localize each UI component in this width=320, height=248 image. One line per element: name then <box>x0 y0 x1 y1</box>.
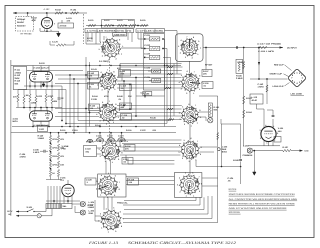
resistor on row y74 <box>167 73 173 75</box>
svg-text:R-144: R-144 <box>92 95 98 98</box>
svg-text:9: 9 <box>119 38 120 41</box>
node pins V-103 top <box>29 107 31 109</box>
svg-text:A-102: A-102 <box>44 8 51 11</box>
svg-text:A-107 CM PROBE: A-107 CM PROBE <box>257 43 282 46</box>
svg-text:250K: 250K <box>15 77 20 80</box>
probe dashed box <box>16 17 34 32</box>
capacitor C-106 <box>43 150 45 153</box>
svg-text:SOCKET: SOCKET <box>17 24 26 27</box>
rotary switch S-7 inside osc box <box>178 35 201 59</box>
resistor R-133 vertical <box>29 94 31 102</box>
wire S-10 right outputs <box>200 146 218 148</box>
wire ladder bus <box>86 25 149 27</box>
svg-text:6: 6 <box>181 39 182 42</box>
svg-text:1 MFD: 1 MFD <box>258 85 265 88</box>
svg-text:3: 3 <box>96 180 97 183</box>
frequency legend strip right <box>136 29 165 33</box>
component box right of S-4 <box>122 158 133 165</box>
svg-text:R-145: R-145 <box>150 117 157 120</box>
svg-text:6.3 V: 6.3 V <box>89 204 94 207</box>
svg-text:6: 6 <box>101 71 102 74</box>
lamp I-101 <box>208 118 213 123</box>
svg-text:3: 3 <box>259 129 260 132</box>
gang dashed link S-3 to S-4 <box>109 122 111 141</box>
svg-text:1: 1 <box>200 47 201 50</box>
svg-text:8: 8 <box>121 225 122 228</box>
tube V-101 <box>41 17 52 28</box>
svg-text:6: 6 <box>115 175 116 178</box>
svg-text:6: 6 <box>115 139 116 142</box>
wire osc box top link <box>165 30 178 32</box>
svg-text:V-102 12AU7: V-102 12AU7 <box>33 67 49 70</box>
svg-text:C-118: C-118 <box>85 148 91 151</box>
svg-text:7: 7 <box>119 181 120 184</box>
wire S-3 right rows <box>117 105 182 107</box>
rotary switch S-8 <box>179 70 203 95</box>
svg-text:3: 3 <box>177 184 178 187</box>
svg-text:7: 7 <box>198 176 199 179</box>
svg-text:L-178: L-178 <box>252 96 258 99</box>
wire corridor risers right of tubes <box>61 86 63 121</box>
node rail dots <box>32 126 34 128</box>
wire y79 to selector <box>250 78 288 80</box>
svg-text:47K: 47K <box>67 20 71 23</box>
svg-text:9: 9 <box>200 116 201 119</box>
jack J-105 bias <box>217 148 220 151</box>
wire rail y132-7 <box>11 132 176 134</box>
node mid bus dots <box>23 107 25 109</box>
svg-text:C-134: C-134 <box>144 66 151 69</box>
svg-text:9: 9 <box>119 109 120 112</box>
wire osc box to DC input <box>203 47 283 49</box>
vertical riser rail 5 <box>176 31 178 74</box>
node corridor dots <box>69 74 71 76</box>
wire left top rail <box>12 65 181 67</box>
trimmer fan 3 <box>118 138 126 143</box>
vertical rail x240-6 <box>240 124 242 159</box>
svg-text:R-112: R-112 <box>15 74 21 77</box>
svg-text:8: 8 <box>201 183 202 186</box>
vertical rail x221-5 <box>221 124 223 167</box>
svg-text:1: 1 <box>100 193 101 196</box>
svg-text:R-168: R-168 <box>233 159 240 162</box>
wire S-4 to S-5 links <box>105 161 107 174</box>
component box left of S-5 <box>85 178 96 185</box>
svg-text:1: 1 <box>199 88 200 91</box>
svg-text:1: 1 <box>112 161 113 164</box>
svg-text:1: 1 <box>114 88 115 91</box>
svg-text:R-148: R-148 <box>117 95 123 98</box>
svg-text:NOTES:: NOTES: <box>229 188 238 191</box>
trimmer C-134 <box>152 69 161 73</box>
wire AC line 2b <box>41 215 52 217</box>
svg-text:3: 3 <box>100 119 101 122</box>
svg-text:2: 2 <box>100 155 101 158</box>
wire tube to S-3 row2 <box>58 112 99 114</box>
svg-text:RESIS RATING ALL RESISTOR VALU: RESIS RATING ALL RESISTOR VALUES IN OHMS <box>229 203 296 206</box>
component box L-178 <box>250 94 263 104</box>
node power rail dots <box>53 200 55 202</box>
resistor R-134 vertical <box>35 96 37 104</box>
attenuator label box <box>58 23 74 28</box>
tube V-103 oval <box>30 111 53 121</box>
svg-text:5: 5 <box>108 138 109 141</box>
svg-text:SHORT CLIP: SHORT CLIP <box>270 72 283 75</box>
svg-text:2: 2 <box>192 56 193 59</box>
svg-text:SHUNT: SHUNT <box>17 21 25 24</box>
svg-text:FIGURE 1-13: FIGURE 1-13 <box>88 241 119 245</box>
svg-text:R-155: R-155 <box>126 129 132 132</box>
vertical wire x259 with arrow <box>258 48 260 80</box>
wire V-102 pins down <box>29 81 31 88</box>
svg-text:2 MEG: 2 MEG <box>236 77 243 80</box>
svg-text:R-103: R-103 <box>39 62 45 65</box>
svg-text:8: 8 <box>113 35 114 38</box>
wire to V-103 pins <box>29 108 31 112</box>
node dot dc wire <box>243 47 245 49</box>
component box right of S-3 upper <box>120 103 132 110</box>
svg-text:C-112: C-112 <box>141 92 147 95</box>
svg-text:8: 8 <box>119 188 120 191</box>
vertical riser rail 1 <box>164 39 166 127</box>
ground symbol right <box>253 170 256 175</box>
rotary switch S-11 <box>177 171 202 197</box>
trimmer fan 2 <box>107 138 115 143</box>
wire left col stubs <box>17 90 19 95</box>
wire tube to S-2 row2 <box>58 78 99 80</box>
svg-text:47K: 47K <box>60 155 64 158</box>
node rail y65 dots <box>85 65 86 66</box>
jack L-105 6.3V <box>80 202 85 207</box>
svg-text:47K: 47K <box>60 138 64 141</box>
wire second rail <box>27 69 83 71</box>
wire jack leads <box>72 203 80 205</box>
svg-text:1: 1 <box>193 92 194 95</box>
wire rail y126-5 <box>12 126 176 128</box>
svg-text:3: 3 <box>185 56 186 59</box>
svg-text:5: 5 <box>182 106 183 109</box>
svg-text:R-104: R-104 <box>71 8 78 11</box>
resistor R-124 <box>129 24 137 26</box>
wire and arrow 6.3v <box>291 150 299 152</box>
trimmer C-131 <box>149 37 160 41</box>
svg-text:R-121: R-121 <box>88 19 94 22</box>
svg-text:7: 7 <box>197 140 198 143</box>
svg-text:2: 2 <box>115 57 116 60</box>
svg-text:1: 1 <box>101 227 102 230</box>
svg-text:C-122: C-122 <box>140 129 146 132</box>
svg-text:1500µµF: 1500µµF <box>17 18 26 21</box>
svg-text:6: 6 <box>187 70 188 73</box>
svg-text:C-171: C-171 <box>96 135 102 138</box>
svg-text:1 MFD: 1 MFD <box>33 151 40 154</box>
vertical rail x243-7 <box>243 48 245 146</box>
svg-text:RED CLIP: RED CLIP <box>274 63 284 66</box>
svg-text:3: 3 <box>180 118 181 121</box>
svg-text:1 CYCLES SCHEMATIC kHz: 1 CYCLES SCHEMATIC kHz <box>87 30 132 33</box>
svg-text:6: 6 <box>190 137 191 140</box>
wire common jack bus <box>253 150 283 152</box>
wire lower link <box>40 30 59 32</box>
svg-text:1: 1 <box>186 195 187 198</box>
wire fans to rail <box>99 133 101 138</box>
component box right of S-8 lower <box>202 82 213 89</box>
transformer leads <box>47 186 49 204</box>
wire riser tops <box>163 38 165 40</box>
fuse F-101 <box>37 214 41 218</box>
wire S-2 right rows <box>117 77 182 79</box>
svg-text:6: 6 <box>192 171 193 174</box>
wire probe lower drop <box>50 44 55 46</box>
svg-text:L-104: L-104 <box>243 145 249 148</box>
svg-text:5: 5 <box>97 77 98 80</box>
node junction dots on bus <box>27 12 29 14</box>
wire cap stub <box>272 110 274 115</box>
wire V-105 pins top <box>263 109 265 127</box>
rotary switch S-3 <box>96 100 120 126</box>
svg-text:27K: 27K <box>87 39 91 42</box>
wire left riser to S-6 <box>94 200 96 221</box>
svg-text:C-131: C-131 <box>144 34 151 37</box>
wire S-10 S-11 link <box>189 160 191 175</box>
svg-text:10K: 10K <box>60 164 64 167</box>
svg-text:1: 1 <box>266 142 267 145</box>
component box bottom of stack <box>143 92 152 96</box>
component box right of S-8 upper <box>202 70 212 77</box>
svg-text:2: 2 <box>179 191 180 194</box>
svg-text:8: 8 <box>115 103 116 106</box>
svg-text:9: 9 <box>199 190 200 193</box>
resistor R-122 <box>104 24 112 26</box>
tube test label box <box>113 33 127 36</box>
svg-text:3: 3 <box>100 212 101 215</box>
transformer box T-102 <box>38 125 48 131</box>
svg-text:1: 1 <box>197 53 198 56</box>
wire V-103 bottom pins <box>32 121 34 127</box>
svg-text:R-163: R-163 <box>246 97 253 100</box>
resistor R-107 heater <box>283 149 292 151</box>
svg-text:S-101: S-101 <box>27 206 33 209</box>
svg-text:ATTEN: ATTEN <box>60 25 67 28</box>
wire tube cathode down <box>46 29 48 32</box>
svg-text:8: 8 <box>201 146 202 149</box>
switch box S-11 <box>174 173 202 198</box>
wire osc box bottom drop <box>189 61 191 73</box>
resistor on row y88 <box>165 87 171 89</box>
resistor R-131 vertical <box>17 94 19 102</box>
rotary switch S-2 <box>97 69 119 94</box>
wire bottom staircase 1 <box>124 200 196 202</box>
resistor chain A vertical <box>49 136 51 143</box>
wire S-6 left stubs <box>95 215 101 217</box>
resistor on rail x217-7 <box>217 133 219 140</box>
vertical riser rail 2 <box>166 49 168 124</box>
svg-text:V-105: V-105 <box>278 127 284 130</box>
wire center risers <box>123 81 125 106</box>
rotary switch S-6 <box>98 207 124 234</box>
resistor on row y109 <box>167 108 173 110</box>
svg-text:FREQ CAL: FREQ CAL <box>117 201 128 204</box>
svg-text:1: 1 <box>191 124 192 127</box>
resistor R-121 <box>88 24 96 26</box>
wire tube to S-3 row1 <box>55 108 99 110</box>
dashed gang line through fans <box>86 141 128 143</box>
wire pin bus 2 <box>18 89 66 91</box>
wire AC line 1b <box>34 211 46 213</box>
wire ground drop right <box>253 151 255 170</box>
svg-text:ALL CAPACITOR VALUES IN MICROF: ALL CAPACITOR VALUES IN MICROFARADS AND <box>229 198 298 201</box>
svg-text:5: 5 <box>185 172 186 175</box>
wire tube to S-2 row1 <box>55 74 100 76</box>
svg-text:2: 2 <box>186 92 187 95</box>
node dots ladder <box>101 25 103 27</box>
wire rows S-5 to S-11 <box>126 176 174 178</box>
svg-text:5: 5 <box>178 45 179 48</box>
component box right of S-2 upper <box>119 70 131 77</box>
rotary switch S-5 <box>96 172 120 199</box>
wire S-8 S-9 link <box>189 92 191 106</box>
capacitor C-151 above tube <box>272 114 275 116</box>
wire AC drop to rectifier <box>51 209 53 216</box>
svg-text:R-164: R-164 <box>246 111 253 114</box>
svg-text:5: 5 <box>108 172 109 175</box>
svg-text:1 M: 1 M <box>129 181 133 184</box>
svg-text:C-153 1 MFD: C-153 1 MFD <box>258 50 275 53</box>
svg-text:1 MEG: 1 MEG <box>38 137 45 140</box>
wire bottom staircase 3 <box>124 209 204 211</box>
wire bottom staircase 5 <box>123 218 213 220</box>
wire S-1 left feed <box>86 43 101 45</box>
component box right of S-5 <box>128 178 139 185</box>
wire center bus y120-5 <box>78 120 171 122</box>
svg-text:R-111: R-111 <box>15 69 21 72</box>
svg-text:R-141: R-141 <box>91 68 98 71</box>
wire center bus y123-5 <box>66 123 167 125</box>
component box left of S-4 <box>84 146 97 157</box>
svg-text:S-1 FREQ: S-1 FREQ <box>99 60 109 63</box>
switch box S-5 <box>98 174 126 197</box>
svg-text:3: 3 <box>178 151 179 154</box>
svg-text:1: 1 <box>121 52 122 55</box>
svg-text:1 MEG: 1 MEG <box>15 71 22 74</box>
svg-text:1: 1 <box>105 160 106 163</box>
terminal box <box>62 204 73 209</box>
trimmer C-135 <box>152 79 161 83</box>
jack L-106 gnd <box>80 210 85 215</box>
vertical riser rail 4 <box>173 64 175 117</box>
svg-text:9: 9 <box>118 76 119 79</box>
svg-text:4 MFD: 4 MFD <box>20 156 27 159</box>
resistor R-153 on DC wire <box>258 46 267 48</box>
svg-text:A-17K: A-17K <box>52 41 59 44</box>
svg-text:2: 2 <box>184 123 185 126</box>
svg-text:9: 9 <box>201 81 202 84</box>
svg-text:COMMON: COMMON <box>243 154 253 157</box>
svg-text:6: 6 <box>120 211 121 214</box>
svg-text:LAB. COND: LAB. COND <box>291 93 303 96</box>
resistor R-167 vertical <box>266 85 268 92</box>
switch S-101 lever <box>28 209 34 212</box>
svg-text:1: 1 <box>118 82 119 85</box>
node dots stack rail <box>144 38 146 40</box>
svg-text:R-123: R-123 <box>117 19 123 22</box>
wire S-9 to resistor box <box>199 111 208 113</box>
vertical riser rail 3 <box>170 57 172 120</box>
wire bottom staircase 4 <box>123 213 208 215</box>
rotary switch S-10 <box>178 137 201 163</box>
wire chains bottom <box>50 177 52 180</box>
wire rows into S-10 upper <box>120 139 182 141</box>
wire S-2 S-3 link <box>107 90 109 103</box>
capacitor C-112 center <box>143 95 145 98</box>
svg-text:47K: 47K <box>13 95 17 98</box>
ground symbol probe section <box>57 31 61 37</box>
svg-text:C-109: C-109 <box>91 98 98 101</box>
svg-text:6: 6 <box>188 103 189 106</box>
trimmer fan 1 <box>96 138 104 143</box>
svg-text:7: 7 <box>107 69 108 72</box>
clip selector rounded diamond <box>288 69 307 88</box>
svg-text:AND 1/2 W RATING UNLESS OTHERW: AND 1/2 W RATING UNLESS OTHERWISE <box>229 207 288 210</box>
gang dashed link S-1 to S-2 <box>109 58 111 72</box>
svg-text:R-125: R-125 <box>140 19 146 22</box>
svg-text:47K: 47K <box>117 67 121 70</box>
svg-text:C-132: C-132 <box>144 44 151 47</box>
svg-text:RF PROBE: RF PROBE <box>21 32 33 35</box>
tube V-105 rectifier <box>259 124 278 145</box>
resistor chain B vertical <box>57 136 59 143</box>
rotary switch S-1 range selector <box>99 35 124 61</box>
rotary switch S-4 <box>99 138 123 164</box>
svg-text:6: 6 <box>100 41 101 44</box>
tube V-102 oval <box>30 72 53 82</box>
svg-text:5: 5 <box>99 48 100 51</box>
component box right of S-2 lower <box>120 84 132 91</box>
wire S-9 S-10 link <box>189 124 191 141</box>
svg-text:47K: 47K <box>125 148 129 151</box>
rotary switch S-9 <box>179 103 201 128</box>
wire S-4 right rows <box>120 146 181 148</box>
small box right of tube <box>274 137 281 143</box>
svg-text:C-173: C-173 <box>118 135 124 138</box>
resistor R-102 on bus <box>55 12 63 14</box>
vertical rail x217-7 <box>217 96 219 148</box>
svg-text:2: 2 <box>182 157 183 160</box>
wire stack rows left feeds <box>137 33 139 39</box>
wire probe box to bus <box>27 13 29 17</box>
resistor R-125 <box>140 24 148 26</box>
svg-text:7: 7 <box>123 218 124 221</box>
resistor on row y67 <box>167 66 173 68</box>
svg-text:8: 8 <box>121 151 122 154</box>
svg-text:1: 1 <box>193 194 194 197</box>
svg-text:1: 1 <box>188 160 189 163</box>
wire rectifier bus <box>248 145 280 147</box>
wire rows S-11 to rail <box>202 177 218 179</box>
resistor R-135 vertical <box>45 94 47 102</box>
svg-text:8: 8 <box>199 109 200 112</box>
svg-text:22K: 22K <box>128 95 132 98</box>
wire bottom staircase 2 <box>123 204 200 206</box>
svg-text:10K: 10K <box>203 73 207 76</box>
svg-text:TUBE TEST: TUBE TEST <box>114 33 127 36</box>
wire S-4 left rows <box>97 147 102 149</box>
node chain A dots <box>50 142 52 144</box>
svg-text:R-107: R-107 <box>283 146 290 149</box>
svg-text:7: 7 <box>109 100 110 103</box>
svg-text:C-133: C-133 <box>144 53 151 56</box>
svg-text:3: 3 <box>181 88 182 91</box>
